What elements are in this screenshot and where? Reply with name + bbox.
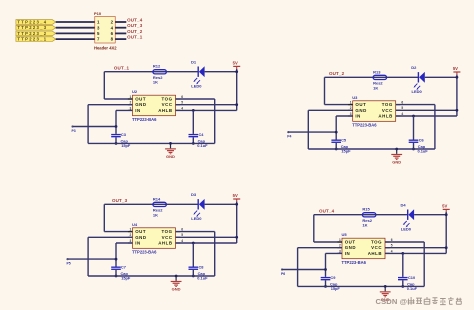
wire pad to IN node: [68, 258, 117, 260]
svg-text:2: 2: [130, 233, 132, 237]
svg-text:GND: GND: [345, 245, 356, 250]
svg-text:OUT_3: OUT_3: [127, 23, 143, 28]
junction AHLB / C10: [401, 252, 404, 255]
svg-text:3: 3: [130, 239, 132, 243]
wire C7 to rail: [115, 270, 117, 276]
svg-text:VCC: VCC: [162, 235, 173, 240]
junction C7 / rail: [115, 275, 118, 278]
svg-text:P5: P5: [67, 262, 71, 266]
svg-text:AHLB: AHLB: [158, 108, 172, 113]
junction 5V / LED wire: [235, 70, 238, 73]
wire net OUT_4 top rail: [314, 215, 363, 242]
svg-text:6: 6: [181, 228, 183, 232]
svg-text:AHLB: AHLB: [378, 113, 392, 118]
wire pad to IN node: [73, 126, 117, 128]
wire C6 to rail: [413, 143, 415, 149]
junction pad wire / IN: [324, 268, 327, 271]
capacitor C5: [331, 138, 351, 154]
svg-text:5: 5: [181, 233, 183, 237]
pad P5: [66, 258, 70, 266]
svg-text:OUT_1: OUT_1: [127, 35, 143, 40]
svg-text:LED0: LED0: [401, 227, 412, 232]
wire AHLB pin to 5V: [396, 115, 457, 117]
svg-text:AHLB: AHLB: [368, 251, 382, 256]
junction ground stem / rail: [175, 275, 178, 278]
IC U4 TTP223-BA6: [132, 222, 176, 255]
svg-text:OUT_3: OUT_3: [112, 198, 128, 203]
wire TOG pin to ground rail: [385, 242, 424, 286]
pin 6: [176, 95, 184, 99]
wire pad to IN node: [288, 131, 336, 133]
wire AHLB pin to 5V: [176, 109, 237, 111]
junction C8 / rail: [192, 275, 195, 278]
wire C10 to rail: [402, 280, 404, 286]
svg-text:1K: 1K: [153, 212, 158, 217]
svg-text:C6: C6: [419, 138, 425, 143]
wire GND pin to rail: [88, 237, 132, 276]
pin 5: [396, 106, 404, 110]
wire port TTP223_3 to header pin: [56, 27, 95, 29]
pin 6: [176, 228, 184, 232]
junction AHLB / C6: [412, 115, 415, 118]
wire IN pin to C5: [336, 116, 353, 140]
wire TOG pin to ground rail: [396, 105, 435, 149]
LED D4: [401, 202, 415, 231]
pin 4: [385, 249, 393, 253]
wire IN pin to C7: [116, 243, 133, 267]
pin 4: [396, 112, 404, 116]
wire header to net OUT_3: [115, 27, 126, 29]
svg-text:TTP223_1: TTP223_1: [17, 37, 47, 42]
junction C5 / rail: [335, 148, 338, 151]
capacitor C7: [111, 265, 131, 281]
wire ground rail: [298, 285, 425, 287]
connector P10 Header 4X2: [94, 11, 117, 51]
wire ground rail: [88, 275, 215, 277]
wire net OUT_1 top rail: [104, 72, 153, 99]
svg-text:C8: C8: [199, 265, 205, 270]
svg-text:U2: U2: [132, 89, 138, 94]
resistor R14: [153, 196, 167, 217]
IC U2 TTP223-BA6: [132, 89, 176, 122]
svg-text:VCC: VCC: [382, 108, 393, 113]
svg-text:TTP223-BA6: TTP223-BA6: [342, 260, 367, 265]
svg-text:1: 1: [130, 228, 132, 232]
wire C4 to rail: [192, 137, 194, 143]
svg-text:LED0: LED0: [191, 84, 202, 89]
wire AHLB pin to 5V: [176, 242, 237, 244]
svg-text:2: 2: [350, 106, 352, 110]
svg-text:TOG: TOG: [162, 96, 173, 101]
svg-text:CSDN @: CSDN @: [376, 297, 408, 306]
svg-text:Header 4X2: Header 4X2: [94, 45, 117, 50]
svg-text:TTP223_4: TTP223_4: [17, 20, 47, 25]
svg-text:5V: 5V: [453, 66, 458, 71]
ground: [165, 143, 176, 159]
wire AHLB pin to 5V: [385, 252, 446, 254]
junction 5V / LED wire: [235, 203, 238, 206]
svg-text:6: 6: [391, 238, 393, 242]
capacitor C3: [111, 132, 131, 148]
LED D2: [411, 65, 425, 94]
svg-text:AHLB: AHLB: [158, 240, 172, 245]
ground: [391, 149, 402, 165]
svg-text:1K: 1K: [373, 85, 378, 90]
svg-text:IN: IN: [135, 240, 141, 245]
wire GND pin to rail: [88, 105, 132, 144]
pin 4: [176, 106, 184, 110]
svg-text:IN: IN: [135, 108, 141, 113]
junction ground stem / rail: [384, 285, 387, 288]
svg-text:OUT_4: OUT_4: [127, 18, 143, 23]
svg-text:D2: D2: [411, 65, 417, 70]
pad P4: [287, 131, 291, 139]
junction ground stem / rail: [395, 148, 398, 151]
wire header to net OUT_1: [115, 38, 126, 40]
junction pad wire / IN: [115, 258, 118, 261]
pin 1: [97, 20, 100, 25]
wire header to net OUT_4: [115, 21, 126, 23]
junction ground stem / rail: [169, 142, 172, 145]
svg-text:1K: 1K: [153, 80, 158, 85]
junction AHLB / C4: [192, 109, 195, 112]
wire resistor to LED: [166, 71, 198, 73]
pin 2: [111, 20, 114, 25]
wire 5V vertical to VCC/AHLB: [456, 75, 458, 116]
ground: [171, 276, 182, 292]
svg-text:TTP223_2: TTP223_2: [17, 31, 47, 36]
svg-text:IN: IN: [345, 251, 351, 256]
wire LED to 5V: [205, 71, 237, 73]
junction C9 / rail: [324, 285, 327, 288]
pin 5: [176, 233, 184, 237]
pin 6: [111, 31, 114, 36]
wire GND pin to rail: [298, 248, 342, 287]
svg-text:GND: GND: [392, 160, 401, 165]
svg-text:R14: R14: [153, 196, 161, 201]
wire TOG pin to ground rail: [176, 232, 215, 276]
junction C6 / rail: [412, 148, 415, 151]
svg-text:TTP223-BA6: TTP223-BA6: [132, 117, 157, 122]
svg-text:TTP223_3: TTP223_3: [17, 25, 47, 30]
svg-text:5V: 5V: [233, 193, 238, 198]
power 5V: [233, 193, 241, 201]
svg-text:D4: D4: [401, 202, 407, 207]
port TTP223_3: [16, 25, 56, 30]
wire header to net OUT_2: [115, 32, 126, 34]
svg-text:5V: 5V: [442, 204, 447, 209]
pad P3: [71, 125, 75, 133]
svg-text:TOG: TOG: [382, 102, 393, 107]
pin 5: [385, 244, 393, 248]
net label OUT_4: [319, 209, 335, 214]
pin 2: [128, 101, 133, 105]
wire C9 to rail: [325, 280, 327, 286]
wire resistor to LED: [166, 203, 198, 205]
junction C4 / rail: [192, 142, 195, 145]
svg-text:C10: C10: [408, 275, 415, 280]
pin 3: [348, 112, 353, 116]
resistor R13: [373, 69, 387, 90]
pin 6: [385, 238, 393, 242]
wire 5V vertical to VCC/AHLB: [445, 212, 447, 253]
net label OUT_3: [112, 198, 128, 203]
svg-text:5V: 5V: [233, 61, 238, 66]
junction C10 / rail: [401, 285, 404, 288]
svg-text:OUT_1: OUT_1: [114, 65, 130, 70]
net label OUT_1: [114, 65, 130, 70]
junction 5V / LED wire: [445, 213, 448, 216]
svg-text:TTP223-BA6: TTP223-BA6: [132, 250, 157, 255]
svg-text:OUT: OUT: [355, 102, 366, 107]
watermark CSDN: [376, 297, 462, 306]
svg-text:OUT_2: OUT_2: [127, 29, 143, 34]
svg-text:C9: C9: [330, 275, 336, 280]
wire ground rail: [88, 142, 215, 144]
svg-text:R15: R15: [362, 207, 370, 212]
wire LED to 5V: [205, 203, 237, 205]
svg-text:GND: GND: [135, 235, 146, 240]
pin 3: [128, 239, 133, 243]
pad P6: [281, 268, 285, 276]
pin 3: [337, 249, 342, 253]
net label OUT_3: [127, 23, 143, 28]
svg-text:1: 1: [339, 238, 341, 242]
pin 2: [348, 106, 353, 110]
wire GND pin to rail: [308, 110, 352, 149]
svg-text:VCC: VCC: [371, 245, 382, 250]
svg-text:C4: C4: [199, 132, 205, 137]
svg-text:U3: U3: [352, 95, 358, 100]
svg-text:U5: U5: [342, 232, 348, 237]
pin 1: [128, 95, 133, 99]
net label OUT_4: [127, 18, 143, 23]
pin 5: [97, 31, 100, 36]
svg-text:GND: GND: [166, 154, 175, 159]
wire resistor to LED: [376, 214, 408, 216]
wire LED to 5V: [414, 214, 446, 216]
wire VCC pin to 5V: [176, 236, 237, 238]
pin 3: [128, 106, 133, 110]
wire VCC pin to 5V: [396, 109, 457, 111]
pin 6: [396, 101, 404, 105]
pin 7: [97, 37, 100, 42]
junction pad wire / IN: [115, 125, 118, 128]
port TTP223_1: [16, 37, 56, 42]
pin 3: [97, 25, 100, 30]
resistor R15: [362, 207, 376, 228]
wire AHLB node to C8: [192, 243, 194, 267]
junction C3 / rail: [115, 142, 118, 145]
pin 5: [176, 101, 184, 105]
svg-text:TOG: TOG: [371, 239, 382, 244]
wire VCC pin to 5V: [176, 104, 237, 106]
wire net OUT_2 top rail: [325, 77, 374, 104]
svg-text:D1: D1: [191, 59, 197, 64]
pin 8: [111, 37, 114, 42]
svg-text:P10: P10: [94, 11, 102, 16]
svg-text:LED0: LED0: [412, 89, 423, 94]
wire C5 to rail: [335, 143, 337, 149]
wire pad to IN node: [282, 269, 326, 271]
pin 2: [128, 233, 133, 237]
svg-text:IN: IN: [355, 113, 361, 118]
svg-text:GND: GND: [355, 108, 366, 113]
IC U3 TTP223-BA6: [352, 95, 396, 128]
wire IN pin to C3: [116, 110, 133, 133]
svg-text:C5: C5: [341, 138, 347, 143]
junction VCC / 5V vertical: [235, 103, 238, 106]
svg-text:1: 1: [350, 101, 352, 105]
ground: [380, 286, 391, 302]
svg-text:OUT_2: OUT_2: [329, 71, 345, 76]
port TTP223_2: [16, 31, 56, 36]
wire TOG pin to ground rail: [176, 99, 215, 143]
svg-text:GND: GND: [135, 102, 146, 107]
junction VCC / 5V vertical: [235, 236, 238, 239]
svg-text:C7: C7: [121, 265, 126, 270]
resistor R12: [153, 64, 167, 85]
svg-text:VCC: VCC: [162, 102, 173, 107]
svg-text:OUT: OUT: [135, 229, 146, 234]
svg-text:R13: R13: [373, 69, 381, 74]
wire ground rail: [308, 148, 435, 150]
junction VCC / 5V vertical: [445, 246, 448, 249]
svg-text:TTP223-BA6: TTP223-BA6: [352, 123, 377, 128]
wire port TTP223_2 to header pin: [56, 32, 95, 34]
port TTP223_4: [16, 20, 56, 25]
svg-text:C3: C3: [121, 132, 127, 137]
svg-text:P4: P4: [287, 135, 291, 139]
junction pad wire / IN: [335, 131, 338, 134]
power 5V: [233, 61, 241, 69]
svg-text:GND: GND: [172, 287, 181, 292]
svg-text:5: 5: [401, 106, 403, 110]
IC U5 TTP223-BA6: [342, 232, 386, 265]
pin 4: [176, 239, 184, 243]
svg-text:LED0: LED0: [191, 216, 202, 221]
capacitor C10: [398, 275, 418, 291]
pin 1: [128, 228, 133, 232]
pin 4: [111, 25, 114, 30]
pin 1: [348, 101, 353, 105]
pin 2: [337, 244, 342, 248]
wire port TTP223_4 to header pin: [56, 21, 95, 23]
svg-text:TOG: TOG: [162, 229, 173, 234]
capacitor C4: [189, 132, 209, 148]
LED D3: [191, 192, 205, 221]
wire 5V vertical to VCC/AHLB: [236, 202, 238, 243]
wire resistor to LED: [387, 76, 419, 78]
wire 5V vertical to VCC/AHLB: [236, 69, 238, 110]
svg-text:P3: P3: [72, 129, 76, 133]
svg-text:4: 4: [181, 239, 183, 243]
svg-text:OUT: OUT: [135, 96, 146, 101]
wire AHLB node to C6: [413, 116, 415, 140]
svg-text:D3: D3: [191, 192, 197, 197]
capacitor C6: [409, 138, 429, 154]
capacitor C8: [189, 265, 209, 281]
net label OUT_2: [127, 29, 143, 34]
svg-text:P6: P6: [281, 272, 285, 276]
svg-text:1K: 1K: [362, 223, 367, 228]
LED D1: [191, 59, 205, 88]
wire VCC pin to 5V: [385, 247, 446, 249]
svg-text:R12: R12: [153, 64, 161, 69]
power 5V: [453, 66, 461, 74]
net label OUT_2: [329, 71, 345, 76]
net label OUT_1: [127, 35, 143, 40]
junction AHLB / C8: [192, 242, 195, 245]
svg-text:OUT: OUT: [345, 239, 356, 244]
wire C8 to rail: [192, 270, 194, 276]
junction 5V / LED wire: [456, 76, 459, 79]
wire IN pin to C9: [326, 253, 343, 277]
capacitor C9: [321, 275, 341, 291]
junction VCC / 5V vertical: [456, 109, 459, 112]
svg-text:OUT_4: OUT_4: [319, 209, 335, 214]
pin 1: [337, 238, 342, 242]
wire net OUT_3 top rail: [104, 204, 153, 231]
svg-text:1: 1: [130, 95, 132, 99]
svg-text:U4: U4: [132, 222, 138, 227]
wire AHLB node to C4: [192, 110, 194, 133]
wire AHLB node to C10: [402, 253, 404, 277]
wire port TTP223_1 to header pin: [56, 38, 95, 40]
wire C3 to rail: [115, 137, 117, 143]
power 5V: [442, 204, 450, 212]
wire LED to 5V: [425, 76, 457, 78]
